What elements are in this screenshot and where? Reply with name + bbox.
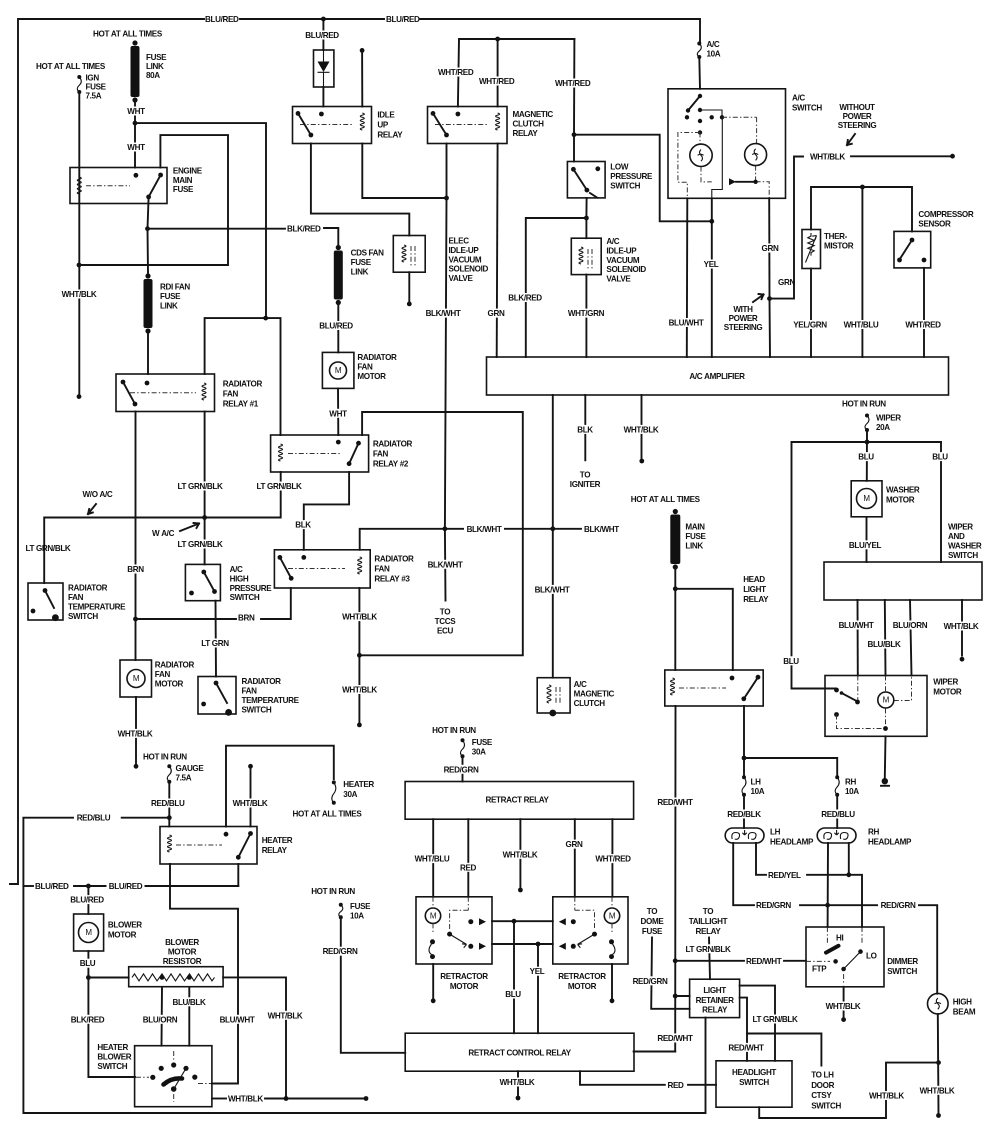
dashed link - relay 3 bbox=[288, 568, 345, 570]
wire - low pressure switch output bbox=[585, 198, 587, 218]
svg-text:RELAY #3: RELAY #3 bbox=[374, 575, 410, 584]
node - dead end dot bbox=[431, 998, 436, 1003]
node - BRN junction bbox=[133, 617, 138, 622]
wire - sensor bus y187 bbox=[811, 187, 912, 231]
svg-text:TO: TO bbox=[580, 471, 590, 480]
wire - WHT/BLK below dimmer bbox=[843, 987, 845, 1017]
svg-text:WHT/BLK: WHT/BLK bbox=[62, 290, 97, 299]
label WHT/BLK (retract) bbox=[499, 850, 541, 859]
node - junction amplifier wire bbox=[550, 526, 555, 531]
svg-text:GAUGE: GAUGE bbox=[176, 764, 205, 773]
node - junction RH lamp left bbox=[825, 903, 830, 908]
label WHT/BLK (rcr) bbox=[496, 1078, 538, 1087]
svg-text:HEATER: HEATER bbox=[97, 1043, 128, 1052]
switch arm - magnetic clutch relay bbox=[433, 113, 447, 135]
label BLK/RED (amp) bbox=[505, 293, 545, 302]
arrow - w a/c pointer bbox=[180, 523, 199, 531]
relay - RADIATOR FAN RELAY #3 box bbox=[274, 550, 370, 588]
node - end dot bbox=[364, 1096, 369, 1101]
label BRN bbox=[125, 565, 147, 574]
svg-text:THER-: THER- bbox=[824, 232, 848, 241]
svg-text:BLU/RED: BLU/RED bbox=[109, 882, 143, 891]
svg-text:FUSE: FUSE bbox=[685, 532, 706, 541]
svg-text:WHT/RED: WHT/RED bbox=[479, 77, 515, 86]
svg-text:M: M bbox=[133, 674, 140, 683]
svg-text:LT GRN/BLK: LT GRN/BLK bbox=[753, 1015, 798, 1024]
svg-text:PRESSURE: PRESSURE bbox=[230, 584, 273, 593]
label BLU (retract) bbox=[503, 990, 523, 999]
contact dot bbox=[336, 440, 341, 445]
svg-text:BRN: BRN bbox=[127, 565, 144, 574]
wire - headlight switch to high beam bbox=[759, 1063, 938, 1118]
wire - BLU to wiper switch bbox=[940, 442, 942, 562]
label BLU/BLK (wiper) bbox=[864, 640, 904, 649]
contact dot bbox=[121, 380, 126, 385]
node - dead end dot bbox=[516, 1096, 521, 1101]
coil - engine main fuse bbox=[77, 177, 81, 194]
svg-text:BLU/ORN: BLU/ORN bbox=[893, 621, 928, 630]
wire - RED/GRN to retract control relay bbox=[341, 917, 405, 1053]
node - ground dot bbox=[882, 778, 888, 784]
svg-text:FUSE: FUSE bbox=[351, 258, 372, 267]
wire - GRN to retractor motor bbox=[574, 819, 576, 897]
svg-text:TO: TO bbox=[440, 608, 450, 617]
svg-text:30A: 30A bbox=[472, 748, 486, 757]
svg-text:ECU: ECU bbox=[437, 627, 454, 636]
relay - RETRACT RELAY box bbox=[405, 782, 633, 820]
svg-text:HEATER: HEATER bbox=[343, 780, 374, 789]
node - BLU junction bbox=[512, 919, 517, 924]
dashed link - idle up relay bbox=[300, 124, 352, 126]
node - RED/BLU junction bbox=[167, 815, 172, 820]
wire - RH headlamp left terminal to dimmer bbox=[827, 843, 829, 927]
svg-text:A/C: A/C bbox=[606, 237, 619, 246]
label RED/GRN (retract) bbox=[319, 947, 361, 956]
svg-text:BLK/RED: BLK/RED bbox=[508, 294, 542, 303]
svg-text:RELAY: RELAY bbox=[262, 846, 288, 855]
svg-text:RED/BLU: RED/BLU bbox=[821, 810, 855, 819]
label YEL (retract) bbox=[527, 967, 547, 976]
label BLK/WHT (bus 2) bbox=[584, 524, 621, 533]
svg-text:STEERING: STEERING bbox=[724, 323, 763, 332]
switch - RADIATOR FAN TEMPERATURE SWITCH (left) box bbox=[28, 583, 63, 620]
node - junction low pressure feed bbox=[709, 219, 714, 224]
node - WHT/BLK dead end bbox=[357, 723, 362, 728]
wire - WHT/BLK from ign fuse bbox=[78, 92, 80, 397]
svg-text:PRESSURE: PRESSURE bbox=[610, 172, 653, 181]
motor - RADIATOR FAN MOTOR (mid) box bbox=[322, 352, 354, 388]
svg-text:FAN: FAN bbox=[373, 450, 389, 459]
svg-text:RELAY: RELAY bbox=[743, 595, 769, 604]
resistor tap dot 1 bbox=[160, 975, 165, 980]
svg-text:HEADLAMP: HEADLAMP bbox=[770, 837, 814, 846]
node - top BLU/RED junction bbox=[321, 17, 326, 22]
wire - RED/BLU to RH headlamp bbox=[836, 795, 838, 828]
contact dot bbox=[356, 441, 361, 446]
svg-text:RADIATOR: RADIATOR bbox=[155, 661, 195, 670]
wire - branch to YEL wire bbox=[574, 135, 712, 222]
fuse IGN FUSE 7.5A bbox=[77, 77, 81, 92]
wire - WHT/RED bus bbox=[458, 39, 575, 107]
svg-text:RED/WHT: RED/WHT bbox=[657, 798, 693, 807]
node - GRN junction bbox=[767, 296, 772, 301]
wire - to TCCS ECU bbox=[444, 529, 447, 601]
node - WHT/BLK stub dot bbox=[248, 764, 253, 769]
lamp - LH HEADLAMP bbox=[725, 828, 764, 843]
svg-text:WHT/BLK: WHT/BLK bbox=[920, 1086, 955, 1095]
svg-text:10A: 10A bbox=[751, 787, 765, 796]
contact dot bbox=[910, 238, 915, 243]
label BLK (igniter) bbox=[574, 425, 596, 434]
svg-text:BLU/ORN: BLU/ORN bbox=[143, 1015, 178, 1024]
node - junction bbox=[742, 756, 747, 761]
svg-text:IDLE-UP: IDLE-UP bbox=[606, 246, 637, 255]
wire - WHT/BLK relay3 coil down bbox=[358, 588, 360, 725]
wire - diode to idle up relay bbox=[322, 87, 324, 107]
wire - YEL/GRN to amplifier bbox=[810, 269, 812, 358]
node - dead end dot bbox=[936, 1113, 941, 1118]
contact dot bbox=[309, 133, 314, 138]
svg-text:TO: TO bbox=[647, 907, 657, 916]
node - clutch ground dot bbox=[549, 710, 556, 717]
svg-text:BLU/YEL: BLU/YEL bbox=[849, 541, 882, 550]
fusible link - CDS FAN FUSE LINK bbox=[336, 245, 341, 250]
svg-text:VACUUM: VACUUM bbox=[449, 255, 482, 264]
label WHT/RED (sensor) bbox=[902, 320, 944, 329]
label WHT/RED (retract) bbox=[591, 854, 635, 863]
contact dot bbox=[431, 111, 436, 116]
contact dot large bbox=[52, 614, 59, 621]
motor - RADIATOR FAN MOTOR (left) box bbox=[120, 660, 152, 697]
label BLU/WHT (wiper) bbox=[835, 621, 877, 630]
blower motor symbol M bbox=[79, 923, 99, 943]
label WHT/BLK (hl switch) bbox=[869, 1091, 906, 1100]
svg-text:HIGH: HIGH bbox=[953, 998, 972, 1007]
wire - RED/WHT head light relay coil down bbox=[674, 706, 676, 1052]
label BLU/RED (diode) bbox=[303, 31, 341, 40]
svg-text:10A: 10A bbox=[845, 787, 859, 796]
wire - RDI fuse to relay 1 bbox=[147, 331, 149, 374]
contact dot bbox=[201, 702, 206, 707]
svg-text:HEADLIGHT: HEADLIGHT bbox=[732, 1068, 776, 1077]
switch arm bbox=[216, 683, 227, 703]
wire - RED/GRN to high beam bbox=[800, 905, 937, 994]
label BLU/RED (cds) bbox=[317, 321, 355, 330]
svg-text:WHT/RED: WHT/RED bbox=[438, 68, 474, 77]
svg-text:WHT/BLK: WHT/BLK bbox=[268, 1011, 303, 1020]
contact dot bbox=[201, 570, 206, 575]
contact dot large bbox=[225, 709, 232, 716]
wire - to LH door ctsy switch bbox=[747, 1034, 821, 1066]
node - blower junction bbox=[86, 975, 91, 980]
svg-text:BLOWER: BLOWER bbox=[165, 938, 199, 947]
coil - idle up relay bbox=[360, 113, 364, 130]
svg-text:RADIATOR: RADIATOR bbox=[68, 584, 108, 593]
svg-text:HOT IN RUN: HOT IN RUN bbox=[143, 753, 187, 762]
svg-text:SWITCH: SWITCH bbox=[792, 103, 822, 112]
wire - BLU/BLK switch to wiper motor bbox=[884, 600, 887, 676]
label WHT/BLU bbox=[840, 320, 882, 329]
svg-text:M: M bbox=[863, 494, 870, 503]
svg-text:WHT/RED: WHT/RED bbox=[555, 79, 591, 88]
core bars - a/c magnetic clutch bbox=[556, 687, 560, 705]
relay - HEATER RELAY box bbox=[160, 827, 257, 865]
svg-text:TAILLIGHT: TAILLIGHT bbox=[689, 917, 728, 926]
svg-text:RADIATOR: RADIATOR bbox=[373, 440, 413, 449]
svg-text:BLU: BLU bbox=[80, 959, 96, 968]
svg-text:BLU/RED: BLU/RED bbox=[70, 896, 104, 905]
svg-text:WHT/RED: WHT/RED bbox=[905, 321, 941, 330]
node - blower motor junction bbox=[86, 884, 91, 889]
contact dot bbox=[730, 676, 735, 681]
label WHT/BLK (wiper stub) bbox=[940, 622, 982, 631]
contact dot bbox=[289, 576, 294, 581]
svg-text:WHT/BLU: WHT/BLU bbox=[844, 321, 879, 330]
svg-text:30A: 30A bbox=[343, 790, 357, 799]
node - BLK/RED junction bbox=[145, 226, 150, 231]
arrow - w/o a/c pointer bbox=[88, 504, 96, 514]
label BLK/RED (switch feed) bbox=[68, 1015, 108, 1024]
coil - heater relay bbox=[168, 835, 172, 852]
svg-text:M: M bbox=[883, 696, 890, 705]
label YEL/GRN bbox=[790, 320, 830, 329]
label BLK/WHT (clutch) bbox=[531, 585, 573, 594]
label LT GRN/BLK (taillight) bbox=[682, 944, 734, 953]
resistor element zigzag bbox=[132, 974, 215, 981]
wire - BLK/RED horizontal bbox=[148, 228, 286, 230]
a/c switch internals bbox=[698, 94, 702, 98]
node - dead end dot bbox=[639, 459, 644, 464]
contact dot bbox=[301, 555, 306, 560]
svg-text:A/C: A/C bbox=[230, 565, 243, 574]
svg-text:WHT/BLK: WHT/BLK bbox=[624, 425, 659, 434]
svg-text:BLU: BLU bbox=[505, 990, 521, 999]
wire - RED/GRN dome fuse to retainer relay bbox=[651, 938, 689, 1009]
svg-text:FTP: FTP bbox=[812, 964, 827, 973]
label RED/BLK bbox=[724, 810, 764, 819]
switch arm - relay 3 bbox=[280, 557, 291, 578]
svg-text:SWITCH: SWITCH bbox=[68, 612, 98, 621]
contact dot bbox=[756, 675, 761, 680]
svg-text:BRN: BRN bbox=[238, 614, 255, 623]
svg-text:TCCS: TCCS bbox=[435, 617, 457, 626]
label WHT/BLU (retract) bbox=[411, 854, 453, 863]
svg-text:A/C AMPLIFIER: A/C AMPLIFIER bbox=[689, 372, 745, 381]
switch - A/C HIGH PRESSURE SWITCH box bbox=[185, 564, 220, 600]
node - junction at y265 bbox=[77, 263, 82, 268]
label RED/GRN (30A) bbox=[440, 765, 482, 774]
contact dot bbox=[456, 112, 461, 117]
retractor motor right internals bbox=[604, 908, 619, 923]
solenoid - A/C IDLE-UP VACUUM SOLENOID VALVE box bbox=[571, 238, 601, 274]
wire - BLK relay2 arm to relay3 bbox=[304, 472, 349, 550]
switch - LOW PRESSURE SWITCH box bbox=[567, 162, 605, 198]
wire - WHT/RED to low pressure switch bbox=[573, 39, 575, 135]
svg-text:SWITCH: SWITCH bbox=[948, 551, 978, 560]
fusible link - RDI FAN FUSE LINK bbox=[145, 273, 150, 278]
thermistor element bbox=[806, 233, 817, 263]
arrow - without power steering bbox=[847, 134, 855, 145]
wire - WHT/BLK stub from amplifier bbox=[641, 395, 643, 458]
label YEL bbox=[701, 260, 721, 269]
svg-text:LIGHT: LIGHT bbox=[743, 585, 766, 594]
wire - heater relay to 30A fuse bbox=[226, 746, 334, 827]
svg-text:LINK: LINK bbox=[685, 542, 703, 551]
switch arm - low pressure switch bbox=[573, 169, 587, 190]
solenoid - ELEC IDLE-UP VACUUM SOLENOID VALVE box bbox=[393, 236, 425, 273]
svg-text:RELAY: RELAY bbox=[513, 129, 539, 138]
svg-text:GRN: GRN bbox=[778, 278, 795, 287]
wire - BLU/YEL washer to switch bbox=[866, 517, 868, 562]
wire - BLU/RED lower-left loop bbox=[23, 818, 705, 1113]
node - junction BLK/RED bbox=[584, 216, 589, 221]
label WHT/BLK (ign wire) bbox=[59, 290, 99, 299]
svg-text:FUSE: FUSE bbox=[146, 53, 167, 62]
svg-text:SOLENOID: SOLENOID bbox=[449, 265, 489, 274]
svg-text:MOTOR: MOTOR bbox=[933, 687, 962, 696]
svg-text:RED/BLU: RED/BLU bbox=[77, 814, 111, 823]
node - WHT/RED junction bbox=[495, 37, 500, 42]
coil - a/c idle-up valve bbox=[579, 247, 583, 264]
coil - a/c magnetic clutch bbox=[547, 685, 551, 703]
coil - head light relay bbox=[671, 678, 675, 695]
svg-text:RED/WHT: RED/WHT bbox=[657, 1034, 693, 1043]
svg-text:POWER: POWER bbox=[729, 314, 758, 323]
svg-text:RETRACT CONTROL RELAY: RETRACT CONTROL RELAY bbox=[468, 1049, 571, 1058]
svg-text:HOT IN RUN: HOT IN RUN bbox=[842, 400, 886, 409]
node - junction with resistor wire bbox=[284, 1096, 289, 1101]
label RED/GRN (dome) bbox=[629, 976, 671, 985]
svg-text:BLK/WHT: BLK/WHT bbox=[584, 525, 619, 534]
svg-text:RADIATOR: RADIATOR bbox=[242, 677, 282, 686]
svg-text:ENGINE: ENGINE bbox=[173, 167, 203, 176]
switch arm - head light relay bbox=[744, 677, 758, 699]
svg-text:WHT/BLK: WHT/BLK bbox=[503, 850, 538, 859]
wire - coil feed stub bbox=[361, 50, 363, 106]
svg-text:LINK: LINK bbox=[160, 302, 178, 311]
svg-text:RETRACTOR: RETRACTOR bbox=[558, 972, 606, 981]
relay - MAGNETIC CLUTCH RELAY box bbox=[428, 107, 508, 144]
svg-text:BLU: BLU bbox=[932, 453, 948, 462]
svg-text:MISTOR: MISTOR bbox=[824, 241, 854, 250]
coil - elec idle-up valve bbox=[402, 245, 406, 262]
svg-text:RETRACTOR: RETRACTOR bbox=[440, 972, 488, 981]
wire - to RDI fuse link bbox=[147, 229, 150, 273]
svg-text:RADIATOR: RADIATOR bbox=[223, 380, 263, 389]
contact dot bbox=[31, 609, 36, 614]
svg-text:FUSE: FUSE bbox=[86, 83, 107, 92]
retractor motor left internals bbox=[425, 908, 440, 923]
contact dot bbox=[571, 167, 576, 172]
wire - BLK to igniter bbox=[584, 395, 586, 460]
relay - HEAD LIGHT RELAY box bbox=[665, 670, 763, 706]
svg-text:FAN: FAN bbox=[242, 687, 258, 696]
wiper motor internals bbox=[834, 688, 839, 693]
wire - blower to resistor bbox=[88, 977, 128, 979]
svg-text:BLU/RED: BLU/RED bbox=[305, 31, 339, 40]
svg-text:HOT IN RUN: HOT IN RUN bbox=[432, 726, 476, 735]
wire - RED/GRN from LH headlamp bbox=[733, 843, 754, 905]
label WHT/BLK (heater) bbox=[230, 799, 270, 808]
label BLK/WHT (bus 1) bbox=[464, 524, 504, 533]
svg-text:TO LH: TO LH bbox=[811, 1071, 834, 1080]
svg-text:HEATER: HEATER bbox=[262, 836, 293, 845]
contact dot bbox=[595, 166, 600, 171]
arrow - with power steering bbox=[753, 294, 764, 302]
contact dot bbox=[158, 173, 163, 178]
wire - RED/BLU gauge fuse to heater relay bbox=[168, 782, 170, 827]
svg-text:BLK/RED: BLK/RED bbox=[287, 225, 321, 234]
wire - BLU/BLK resistor tap to switch bbox=[188, 987, 190, 1046]
svg-text:FUSE: FUSE bbox=[160, 292, 181, 301]
dashed link - engine main fuse bbox=[86, 185, 130, 187]
wire - GRN to amplifier bbox=[769, 299, 772, 357]
node - dead end dot bbox=[841, 1017, 846, 1022]
dashed link - head light relay bbox=[679, 687, 726, 689]
svg-text:BLK/WHT: BLK/WHT bbox=[428, 560, 463, 569]
node - WHT/BLK dead end bbox=[134, 764, 139, 769]
svg-text:HOT AT ALL TIMES: HOT AT ALL TIMES bbox=[93, 30, 163, 39]
svg-text:RED/BLK: RED/BLK bbox=[727, 810, 761, 819]
svg-text:WASHER: WASHER bbox=[886, 486, 920, 495]
washer motor symbol M bbox=[857, 489, 877, 509]
wire - heater relay arm to BLU/RED bus bbox=[237, 864, 239, 886]
switch arm - compressor sensor bbox=[901, 240, 913, 258]
wire - YEL to retract control relay bbox=[537, 944, 539, 1033]
node - WHT/BLU junction bbox=[860, 185, 865, 190]
wire - BLU/RED main loop top and left border bbox=[10, 19, 204, 884]
label BLU/ORN bbox=[140, 1015, 180, 1024]
svg-text:YEL/GRN: YEL/GRN bbox=[793, 321, 827, 330]
svg-text:WITHOUT: WITHOUT bbox=[839, 103, 875, 112]
svg-text:HOT AT ALL TIMES: HOT AT ALL TIMES bbox=[36, 62, 106, 71]
svg-text:WHT/GRN: WHT/GRN bbox=[568, 309, 605, 318]
motor - WASHER MOTOR box bbox=[851, 481, 882, 517]
label RED/BLU (upper) bbox=[151, 799, 188, 808]
wire - RED/WHT to dimmer 2 bbox=[784, 960, 806, 962]
contact dot bbox=[189, 591, 194, 596]
label BLU/RED (bus mid) bbox=[107, 882, 145, 891]
svg-text:HOT AT ALL TIMES: HOT AT ALL TIMES bbox=[631, 495, 701, 504]
wire - retract control relay to RED/WHT trunk bbox=[634, 1051, 676, 1053]
svg-text:RADIATOR: RADIATOR bbox=[374, 555, 414, 564]
switch - HEADLIGHT SWITCH box bbox=[716, 1061, 792, 1107]
svg-text:FUSE: FUSE bbox=[472, 738, 493, 747]
svg-text:WHT/RED: WHT/RED bbox=[595, 855, 631, 864]
switch arm - relay 2 bbox=[349, 443, 358, 464]
wire - amplifier to a/c magnetic clutch bbox=[552, 395, 554, 678]
wire - WHT/BLK below fan motor bbox=[135, 697, 137, 766]
node - dead end dot bbox=[407, 302, 412, 307]
contact dot bbox=[319, 112, 324, 117]
label WHT/BLK (resistor) bbox=[264, 1011, 306, 1020]
contact dot bbox=[444, 133, 449, 138]
svg-text:20A: 20A bbox=[876, 423, 890, 432]
wire - BLU bus bbox=[792, 441, 942, 443]
fuse A/C 10A bbox=[697, 44, 701, 58]
wire - WHT/BLK stub from switch bbox=[961, 600, 963, 656]
wire - LT GRN/BLK relay1 coil down bbox=[204, 412, 206, 518]
wire - WHT branch to radiator fan relay line bbox=[135, 123, 266, 318]
node - junction to clutch loop bbox=[357, 653, 362, 658]
svg-text:RH: RH bbox=[868, 828, 879, 837]
svg-text:VALVE: VALVE bbox=[606, 275, 631, 284]
wire - idle relay arm to solenoid valve bbox=[311, 144, 409, 236]
wire - WHT/BLK switch output stub bbox=[212, 1098, 226, 1100]
svg-text:BLU/BLK: BLU/BLK bbox=[867, 640, 901, 649]
svg-text:POWER: POWER bbox=[843, 112, 872, 121]
wire - WHT motor to relay 2 bbox=[337, 388, 339, 435]
